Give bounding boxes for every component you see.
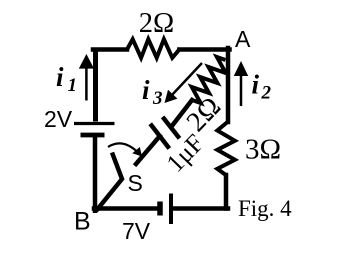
- switch motion curved arrow: [108, 143, 137, 151]
- wire lead capacitor to switch contact: [136, 136, 160, 164]
- wire left lower (node B up to 2V battery): [93, 136, 98, 211]
- battery 2V long plate: [74, 122, 115, 125]
- wire right upper (A down to 3 ohm): [226, 48, 231, 122]
- svg-text:i1: i1: [56, 62, 77, 96]
- svg-text:2V: 2V: [44, 106, 73, 132]
- wire diagonal lead (resistor to capacitor): [172, 100, 193, 127]
- svg-text:3Ω: 3Ω: [245, 133, 281, 165]
- svg-text:B: B: [74, 208, 91, 236]
- svg-text:7V: 7V: [122, 218, 151, 244]
- resistor R1 2 ohm (top): [127, 39, 179, 58]
- capacitor C1 right plate: [163, 117, 180, 138]
- battery 2V short plate: [81, 133, 105, 138]
- resistor R3 2 ohm (diagonal branch): [192, 57, 226, 103]
- capacitor C1 left plate: [150, 124, 169, 149]
- wire bottom left (7V battery to node B): [94, 206, 157, 211]
- current arrow i2: [240, 74, 243, 106]
- resistor R2 3 ohm (right): [217, 122, 235, 176]
- wire bottom right (corner to 7V battery): [172, 206, 228, 211]
- svg-text:Fig. 4: Fig. 4: [238, 196, 292, 221]
- wire top: [93, 47, 127, 52]
- switch S blade: [96, 153, 122, 212]
- wire top right segment to node A: [179, 47, 229, 52]
- current arrow i1: [85, 66, 88, 101]
- svg-text:i2: i2: [252, 70, 272, 104]
- wire left (top corner to 2V battery): [93, 50, 98, 122]
- svg-text:i3: i3: [142, 75, 163, 109]
- battery 7V long plate: [169, 194, 173, 225]
- battery 7V short plate: [157, 202, 163, 216]
- current arrow i3: [172, 63, 203, 96]
- svg-text:2Ω: 2Ω: [139, 8, 174, 39]
- svg-text:S: S: [128, 170, 143, 196]
- svg-text:A: A: [235, 26, 251, 52]
- wire right lower (3 ohm to bottom corner): [224, 175, 229, 209]
